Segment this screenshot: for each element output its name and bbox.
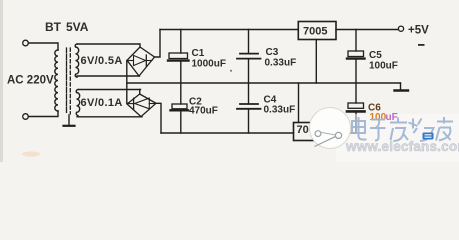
bridge D1 diode	[129, 60, 134, 62]
glyph you	[436, 117, 453, 141]
AC input terminal bottom	[23, 114, 29, 120]
glyph fa	[390, 118, 408, 142]
svg-text:100uF: 100uF	[369, 61, 398, 72]
svg-text:7005: 7005	[303, 26, 327, 38]
watermark logo circle	[310, 108, 351, 149]
bottom rail wire	[161, 132, 294, 134]
svg-text:470uF: 470uF	[189, 106, 218, 117]
capacitor C3 (0.33uF)	[248, 30, 250, 54]
AC input terminal top	[23, 40, 29, 46]
bridge D2 diode	[129, 103, 134, 105]
watermark chinese glyphs (approximated shapes)	[352, 117, 453, 141]
glyph shao	[409, 119, 434, 142]
svg-text:100: 100	[370, 112, 387, 123]
svg-text:6V/0.5A: 6V/0.5A	[81, 55, 123, 67]
wire secondary2 bottom to bridge D2 ac2	[77, 116, 142, 118]
wire secondary1 top to bridge D1 ac1	[77, 43, 140, 45]
wire bottom regulator output (under watermark)	[332, 132, 357, 134]
svg-text:C1: C1	[192, 48, 205, 59]
svg-text:6V/0.1A: 6V/0.1A	[81, 97, 123, 109]
svg-text:C3: C3	[266, 47, 279, 58]
capacitor C5 (100uF electrolytic)	[355, 30, 357, 52]
svg-text:BT: BT	[45, 20, 62, 34]
ground (core shield)	[68, 115, 70, 126]
watermark blue badge	[423, 133, 434, 140]
svg-text:+5V: +5V	[408, 25, 429, 37]
svg-text:AC 220V: AC 220V	[7, 75, 54, 87]
stray dash mark	[418, 44, 425, 46]
transformer core line dashed	[69, 48, 71, 114]
+5V output terminal	[398, 26, 403, 31]
bridge rectifier D2 body	[139, 90, 141, 95]
capacitor C4 (0.33uF)	[240, 103, 258, 105]
capacitor C6 (100uF electrolytic)	[348, 103, 364, 108]
ground at right end of 0V rail	[400, 83, 402, 90]
transformer T1 primary winding	[55, 50, 58, 111]
glyph zi	[370, 120, 386, 141]
regulator U2 7005 box (under watermark)	[294, 123, 332, 141]
svg-text:5VA: 5VA	[66, 20, 89, 34]
wire 0V rail down to regulator U2	[298, 83, 300, 123]
svg-text:C5: C5	[369, 50, 382, 61]
wire bridge D2 output to bottom rail	[156, 103, 161, 133]
wire secondary2 top to bridge D2 ac1	[78, 89, 141, 91]
top rail +V wire	[160, 29, 298, 31]
watermark white glow backdrop	[336, 114, 459, 162]
wire U1 gnd to 0V rail	[315, 40, 317, 84]
background paper	[0, 0, 459, 162]
0V mid rail wire	[127, 82, 401, 84]
stray dot mark	[230, 70, 232, 72]
wire bridge D1 plus to top rail	[155, 30, 161, 58]
svg-text:0.33uF: 0.33uF	[265, 58, 297, 69]
transformer secondary winding 2 (6V/0.1A)	[76, 90, 79, 116]
bridge rectifier D1 body	[139, 44, 141, 47]
svg-text:1000uF: 1000uF	[192, 59, 226, 70]
transformer secondary winding 1 (6V/0.5A)	[75, 44, 78, 77]
wire primary to terminal bottom	[28, 111, 58, 117]
glyph dian	[352, 117, 367, 140]
capacitor C1 (1000uF electrolytic)	[180, 30, 182, 54]
svg-text:www.elecfans.com: www.elecfans.com	[345, 139, 459, 154]
wire secondary1 bottom to bridge D1 ac2	[77, 75, 140, 77]
svg-text:uF: uF	[386, 112, 398, 123]
wire terminal-top to primary	[28, 43, 58, 50]
svg-text:0.33uF: 0.33uF	[264, 105, 296, 116]
capacitor C2 (470uF electrolytic)	[172, 104, 187, 109]
regulator U1 7005 box	[298, 22, 336, 40]
transformer core line solid	[66, 48, 68, 114]
wire bridge D1 minus to bridge D2 (node M vertical)	[126, 61, 128, 104]
faint smudge bottom-left	[22, 151, 40, 156]
